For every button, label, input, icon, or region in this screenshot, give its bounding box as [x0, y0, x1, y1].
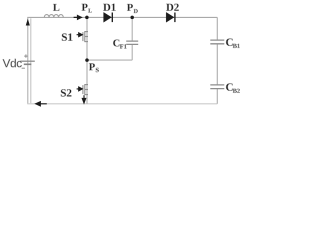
wire right rail: [216, 17, 218, 103]
transistor S2 body: [83, 84, 88, 95]
capacitor CB1 plates: [210, 40, 224, 44]
node PL junction dot: [85, 16, 89, 20]
wire left rail inner parallel: [30, 18, 32, 103]
current arrow right on top rail: [74, 16, 82, 20]
wire center branch (S1-S2 leg): [86, 17, 88, 103]
label PL: [82, 4, 92, 13]
battery Vdc long plate: [20, 60, 35, 62]
S2 gate arrow: [77, 87, 83, 91]
transistor S1 body: [83, 31, 88, 42]
battery Vdc short plate: [24, 63, 32, 65]
diode D2 cathode bar: [174, 13, 176, 23]
label Vdc: [3, 59, 22, 68]
label D1: [103, 4, 115, 11]
battery minus sign: [22, 67, 25, 69]
wire top rail: [27, 16, 217, 18]
current arrow down beside S2: [82, 95, 85, 103]
wire node PS horizontal: [87, 59, 132, 61]
node PD junction dot: [130, 16, 134, 20]
label PD: [127, 4, 138, 13]
wire left rail outer: [27, 17, 29, 103]
capacitor CB2 plates: [210, 85, 224, 89]
label CF1: [113, 40, 126, 49]
label PS: [89, 63, 99, 72]
label S2: [61, 89, 72, 96]
inductor L coil: [44, 15, 63, 18]
S1 gate arrow: [77, 33, 83, 37]
wire bottom rail: [27, 103, 217, 105]
label L: [53, 4, 59, 11]
diode D2 body: [166, 12, 174, 22]
node PS junction dot: [85, 58, 89, 62]
current arrow left on bottom rail: [36, 102, 47, 106]
current arrow up on left rail: [26, 19, 30, 26]
label CB2: [226, 83, 240, 92]
diode D1 cathode bar: [111, 13, 113, 23]
wire CF1 vertical branch: [131, 17, 133, 60]
label CB1: [226, 38, 240, 47]
diode D1 body: [104, 12, 112, 22]
label S1: [62, 33, 72, 40]
battery plus sign: [24, 54, 27, 57]
label D2: [166, 4, 179, 11]
capacitor CF1 plates: [126, 41, 138, 44]
